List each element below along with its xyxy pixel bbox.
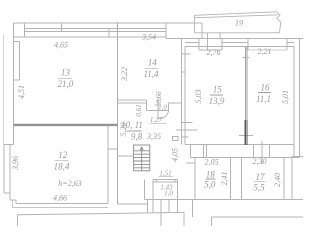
door jamb x269.5 (269, 145, 271, 158)
window room 12 left line (9, 145, 11, 200)
balcony connector x220 (219, 33, 221, 39)
porch left vertical (17, 215, 19, 227)
svg-text:18: 18 (206, 169, 216, 179)
svg-text:4,65: 4,65 (54, 41, 68, 50)
wall bottom-left vertical (15, 200, 17, 204)
wall bottom mid segment (117, 203, 147, 205)
window jamb x61.5 (61, 23, 63, 31)
wall top inner right block (185, 46, 294, 48)
door jamb x253.6 (253, 145, 255, 158)
svg-text:2,21: 2,21 (258, 47, 272, 56)
svg-text:21,0: 21,0 (58, 79, 74, 89)
wall step at x202 (201, 23, 203, 38)
porch doorway right jamb (211, 217, 213, 226)
wall rooms 15/16 bottom north line (185, 144, 294, 146)
svg-text:3,35: 3,35 (146, 132, 161, 141)
svg-text:15: 15 (213, 84, 223, 94)
window jamb x109 (108, 28, 110, 37)
wall top glazing right block (185, 42, 199, 44)
svg-text:5,5: 5,5 (253, 183, 265, 193)
svg-text:2,05: 2,05 (205, 157, 219, 166)
window glazing a room 13 top (25, 27, 119, 29)
porch line left sloped (18, 212, 184, 214)
svg-text:h=2,63: h=2,63 (58, 179, 81, 188)
porch doorway left jamb (183, 212, 185, 226)
wall room 15 west west-line (181, 39, 183, 145)
cellar line x177.5 (177, 199, 179, 213)
svg-text:1,51: 1,51 (159, 170, 171, 178)
svg-text:1,27: 1,27 (150, 116, 163, 124)
svg-text:5,20: 5,20 (119, 123, 128, 137)
svg-text:0,66: 0,66 (155, 91, 163, 104)
room 17 box (242, 158, 284, 200)
cellar line x161 (160, 199, 162, 226)
room 10 east wall (177, 180, 179, 200)
svg-text:4,05: 4,05 (171, 148, 180, 162)
wall top glazing right block c (287, 42, 294, 44)
svg-text:2,40: 2,40 (273, 173, 282, 187)
wall bottom of lower rooms (145, 198, 303, 200)
wall divider tick y57.5 (243, 57, 250, 59)
svg-text:9,8: 9,8 (131, 132, 143, 142)
svg-text:12: 12 (58, 150, 68, 160)
door tick y72 (182, 71, 186, 73)
svg-text:5,0: 5,0 (204, 180, 216, 190)
wall top outer right block (166, 38, 303, 40)
svg-text:4,51: 4,51 (17, 85, 26, 99)
window room 16 jamb x287 (286, 39, 288, 51)
right box (292, 157, 303, 200)
niche cross dash (155, 104, 162, 106)
balcony left edge (193, 15, 195, 33)
door arc corridor (159, 111, 169, 119)
wall room 15 west east-line (184, 47, 186, 145)
balcony top edge 2 (194, 15, 278, 18)
porch line right (212, 216, 303, 218)
wall left block / middle column (116, 23, 118, 204)
wall jog left y144.5 (4, 144, 13, 146)
niche west (146, 100, 148, 111)
wall room 12 bottom outer faint (13, 206, 108, 208)
wall divider rooms 15/16 east line (246, 47, 248, 145)
wall right inner (293, 47, 295, 158)
svg-text:2,76: 2,76 (207, 48, 221, 57)
window glazing b room 14 top (118, 30, 166, 32)
wall dash y129.9 (176, 129, 198, 131)
svg-text:3,54: 3,54 (141, 33, 156, 42)
svg-text:1,0: 1,0 (158, 104, 167, 112)
svg-text:1,0: 1,0 (164, 190, 173, 198)
porch connector x192.7 (192, 199, 194, 217)
window jamb x24.5 (24, 23, 26, 37)
wall divider rooms 13/12 thick (13, 124, 117, 126)
window room 15 jamb x222 (221, 39, 223, 51)
leader line x261.9 (261, 141, 263, 164)
window room 16 jamb x248 (247, 39, 249, 51)
balcony (194, 12, 280, 33)
svg-text:3,96: 3,96 (11, 156, 20, 171)
wall tick y148.9 (108, 148, 118, 150)
room 10 top wall south (153, 181, 178, 183)
wall dash y122.7 (182, 122, 193, 124)
cellar line x152.9 (152, 199, 154, 213)
window room 16 sill faint (248, 49, 287, 51)
window jamb x165.8 top (165, 23, 167, 38)
cellar line x168.8 (168, 199, 170, 213)
balcony break zigzag (277, 12, 281, 33)
small box right of stair (173, 136, 178, 140)
wall room 14 bottom inner (117, 99, 146, 101)
svg-text:18,4: 18,4 (54, 162, 70, 172)
room 18 box (195, 158, 230, 200)
svg-text:4,66: 4,66 (53, 194, 67, 203)
balcony bottom edge (194, 32, 280, 34)
wall rooms 15/16 bottom south line (191, 157, 300, 159)
svg-text:13: 13 (61, 68, 71, 78)
svg-text:2,41: 2,41 (220, 172, 229, 186)
svg-text:19: 19 (235, 19, 243, 28)
window room 15 jamb x199 (198, 39, 200, 51)
wall room 12 east inner (107, 125, 109, 204)
stairwell wall x144.7 (144, 180, 146, 200)
wall top inner room 13 (13, 36, 118, 38)
stair connector line y155.8 (117, 155, 133, 157)
niche mid tick (157, 98, 159, 118)
window room 15 sill (199, 49, 222, 51)
wall cross dash y135.5 (239, 135, 253, 137)
niche east (168, 103, 170, 111)
wall corridor top (117, 102, 146, 104)
wall divider rooms 15/16 west line (244, 47, 246, 145)
room 10 tick x156.4 (155, 180, 157, 182)
svg-text:11,1: 11,1 (256, 94, 271, 104)
masonry hatch wall 15/16 bottom (245, 120, 247, 145)
svg-text:3,22: 3,22 (120, 67, 129, 82)
svg-text:5,01: 5,01 (281, 90, 290, 104)
svg-text:2,30: 2,30 (253, 157, 267, 166)
window room 13 left bottom tick (13, 79, 19, 81)
window room 13 left top tick (13, 41, 19, 43)
window glazing b room 13 top (25, 30, 119, 32)
svg-text:5,03: 5,03 (194, 90, 203, 104)
wall left outer lower (3, 145, 5, 194)
svg-text:14: 14 (148, 58, 158, 68)
wall top inner room 14 (118, 36, 166, 38)
wall corridor top east (169, 102, 182, 104)
window room 12 left bottom tick (4, 192, 10, 194)
door jamb x206.5 (206, 145, 208, 158)
staircase (134, 145, 150, 171)
wall right outer (299, 39, 301, 158)
svg-text:11,4: 11,4 (143, 69, 159, 79)
fraction underlines (54, 69, 271, 182)
wall bottom-left jog (10, 199, 16, 201)
wall left outer (12, 23, 14, 144)
outer extension line left faint (3, 35, 5, 145)
window glazing a room 14 top (118, 27, 166, 29)
wall dash y137 (182, 136, 189, 138)
wall tick x12.5 (12, 200, 14, 208)
wall room 12 bottom inner (16, 203, 108, 205)
cellar line x147.7 (147, 199, 149, 213)
room 10 top wall north (153, 179, 178, 181)
svg-text:17: 17 (256, 172, 266, 182)
window room 15 jamb x207.5 (207, 39, 209, 51)
door tick y54.1 (182, 53, 191, 55)
room 18 door tick (186, 162, 195, 164)
svg-text:16: 16 (261, 82, 271, 92)
svg-text:0,61: 0,61 (135, 104, 143, 116)
niche bottom (147, 110, 169, 112)
room 10 west wall (152, 180, 154, 200)
balcony top edge 1 (194, 12, 277, 16)
door jamb x203.5 (203, 145, 205, 158)
svg-text:13,9: 13,9 (209, 96, 225, 106)
balcony connector x207.5 (207, 33, 209, 39)
wall top outer left block (13, 22, 202, 24)
wall end cap x190.5 (190, 145, 192, 158)
room 10 tick x175.1 (174, 180, 176, 182)
wall top glazing right block b (222, 42, 248, 44)
window room 13 left outer edge (19, 42, 21, 81)
